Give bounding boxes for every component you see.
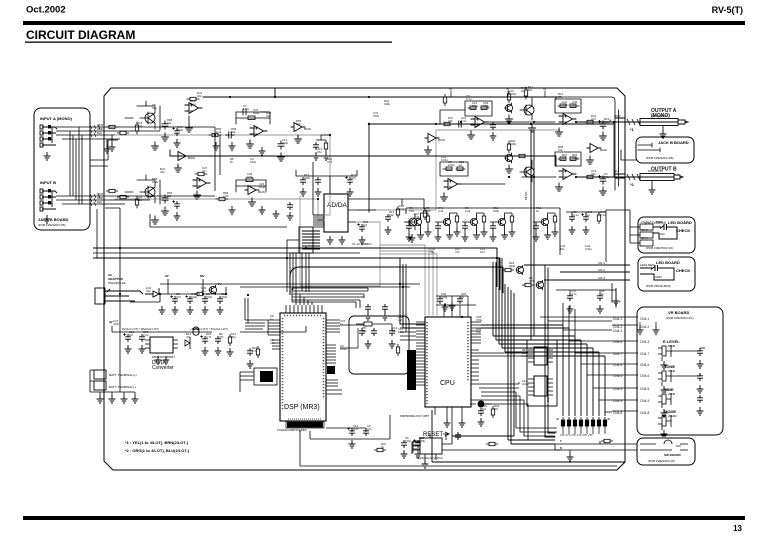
signal line to output A <box>369 124 614 212</box>
svg-text:10u: 10u <box>137 198 142 202</box>
svg-text:0.01u: 0.01u <box>562 103 569 107</box>
svg-text:100u: 100u <box>243 107 250 111</box>
svg-text:33p: 33p <box>146 289 151 293</box>
corner wire 1 <box>556 97 615 190</box>
gnd <box>597 305 604 313</box>
junction 18 <box>499 266 501 268</box>
junction 27 <box>461 316 463 318</box>
gnd pot2 <box>661 386 668 394</box>
right circuit resistor <box>396 206 399 218</box>
wire bundle from jack A <box>56 127 215 392</box>
DSP right pins upper <box>326 320 340 332</box>
res on jack line A1 <box>106 125 118 128</box>
out ecap <box>200 335 207 344</box>
ground Q11 <box>506 165 513 173</box>
ground B2 <box>175 164 182 172</box>
dark comp below cpu <box>470 401 491 408</box>
FET mute A <box>520 98 534 120</box>
gnd net mid <box>323 152 330 160</box>
cluster Q22 <box>462 213 488 241</box>
svg-text:470: 470 <box>591 117 596 121</box>
junction 4 <box>329 134 331 136</box>
ground A9 <box>556 183 563 191</box>
ecap left stage B <box>172 200 179 209</box>
op-amp A3 <box>193 178 210 189</box>
svg-text:22k: 22k <box>448 119 453 123</box>
svg-text:22k: 22k <box>296 122 301 126</box>
cluster Q21 <box>435 213 461 241</box>
reset IC pins <box>425 454 436 460</box>
SW module IC2 pins <box>528 379 553 395</box>
filter cap3 <box>202 296 208 304</box>
junction 14 <box>508 176 510 178</box>
junction 9 <box>508 121 510 123</box>
svg-text:47u: 47u <box>201 289 206 293</box>
svg-text:470p: 470p <box>177 128 184 132</box>
svg-text:47k: 47k <box>558 95 563 99</box>
svg-text:0.1u: 0.1u <box>571 292 577 296</box>
filter cap4 <box>217 296 223 304</box>
led1 symbol <box>653 224 677 239</box>
ground Q10 <box>506 115 513 123</box>
svg-text:BIAS: BIAS <box>304 127 311 131</box>
DSP left wire bundle <box>245 298 268 329</box>
svg-text:13: 13 <box>733 524 742 533</box>
svg-text:470p: 470p <box>510 92 517 96</box>
svg-text:SW: SW <box>676 444 681 448</box>
res on jack line B1 <box>106 189 118 192</box>
below DSP cap <box>347 427 354 436</box>
ground B1 <box>295 135 302 143</box>
svg-text:CN4-8: CN4-8 <box>640 411 649 415</box>
cluster Q20 <box>406 213 432 241</box>
gnd <box>139 345 146 353</box>
resistor array <box>561 417 564 429</box>
gnd fb <box>227 348 234 356</box>
svg-text:INPUT B: INPUT B <box>40 180 56 185</box>
svg-text:2.2u: 2.2u <box>143 333 149 337</box>
led board 2 internals <box>640 265 674 280</box>
MODE pot <box>658 415 671 430</box>
svg-text:470p: 470p <box>221 295 228 299</box>
top CN wires gnd <box>640 322 656 326</box>
led board1 feed wires <box>606 210 640 243</box>
wire top AD/DA <box>296 170 357 194</box>
junction 3 <box>274 96 276 98</box>
svg-text:BLK: BLK <box>97 200 102 204</box>
junction 17 <box>496 257 498 259</box>
top wires <box>436 296 476 317</box>
buffer B2 BIAS <box>175 152 189 161</box>
junction 5 <box>317 198 319 200</box>
gnd pot3 <box>661 409 668 417</box>
DSP bottom dots row <box>288 418 322 420</box>
resistor array 7 <box>597 417 600 429</box>
pot2 cap <box>697 373 703 381</box>
sw board wires <box>555 441 637 453</box>
junction dot out A <box>368 123 370 125</box>
ground input stage B <box>152 216 159 224</box>
cap below AD/DA <box>357 223 364 232</box>
gnd IC <box>155 356 162 364</box>
batt terminal minus box <box>94 381 106 390</box>
cap right above AD/DA <box>345 176 352 185</box>
svg-text:22k: 22k <box>362 329 367 333</box>
wires AD/DA right <box>356 199 424 210</box>
junction 29 <box>402 286 404 288</box>
svg-text:CN-1: CN-1 <box>598 261 605 265</box>
wire to output B <box>576 174 640 178</box>
svg-text:2.2k: 2.2k <box>252 349 258 353</box>
junction 8 <box>460 121 462 123</box>
svg-text:100k: 100k <box>510 142 517 146</box>
filter ecap1 <box>170 295 177 304</box>
svg-text:47k: 47k <box>476 330 481 334</box>
svg-text:M5291FP/M5967: M5291FP/M5967 <box>152 355 175 359</box>
JFET input stage B <box>125 175 160 204</box>
resistor input B <box>135 196 138 208</box>
svg-text:470p: 470p <box>373 114 380 118</box>
svg-text:RED: RED <box>648 263 655 267</box>
right circuit cap <box>385 214 391 222</box>
svg-text:Oct.2002: Oct.2002 <box>26 5 66 16</box>
gnd <box>187 306 194 314</box>
horizontal bus 2 <box>93 258 500 290</box>
res pair top out <box>443 94 446 106</box>
input jack A <box>40 125 57 147</box>
svg-text:CN4-1: CN4-1 <box>613 317 622 321</box>
svg-text:9V: 9V <box>543 87 547 91</box>
CPU pin name texture left <box>426 322 428 404</box>
signal path B (gray) <box>115 199 324 220</box>
SW module IC1 pins <box>528 350 553 362</box>
led area wire <box>612 283 616 303</box>
ground jack A <box>44 152 51 160</box>
ground <box>300 188 307 196</box>
svg-text:1M: 1M <box>528 88 533 92</box>
resistor array dark bodies <box>562 420 607 426</box>
DSP pin texture top <box>284 315 322 317</box>
svg-text:CN4-3: CN4-3 <box>640 340 649 344</box>
RESET wires <box>412 407 562 454</box>
gnd <box>365 312 372 320</box>
cap left <box>247 348 253 356</box>
svg-text:0.01u: 0.01u <box>340 347 347 351</box>
JACK B BOARD box <box>636 137 694 163</box>
svg-text:BIAS: BIAS <box>600 148 607 152</box>
gnd2 <box>415 450 422 458</box>
svg-text:22k: 22k <box>522 351 527 355</box>
res on jack line B2 <box>117 195 129 198</box>
svg-text:47u: 47u <box>202 169 207 173</box>
signal path A (gray) <box>115 135 330 215</box>
feedback box op-amp A7 <box>555 99 581 113</box>
ground A8 <box>441 193 448 201</box>
CN stubs link wires <box>612 317 638 411</box>
gnd led area <box>613 297 620 305</box>
svg-text:22k: 22k <box>389 213 394 217</box>
svg-text:100p: 100p <box>191 295 198 299</box>
junction 21 <box>119 247 121 249</box>
gnd top out <box>490 132 497 140</box>
pot1 cap <box>697 348 703 356</box>
caps cluster right below dsp <box>401 440 407 448</box>
ground mid A <box>278 153 285 161</box>
IC pins <box>145 340 178 348</box>
horizontal links to CN column <box>563 330 612 412</box>
SW BOARD box <box>637 438 695 465</box>
svg-text:VR BOARD: VR BOARD <box>668 310 689 315</box>
rail wires <box>112 326 306 332</box>
wires to LED board 2 <box>524 265 630 280</box>
below DSP wires <box>310 415 390 439</box>
svg-text:100p: 100p <box>483 104 490 108</box>
junction 30 <box>247 294 249 296</box>
main board outline <box>104 88 625 470</box>
out ecap B <box>598 175 605 184</box>
cap out row <box>287 202 293 210</box>
resistor after A1 <box>209 133 221 136</box>
dark pair to cpu <box>400 258 425 328</box>
title underline <box>25 42 392 43</box>
cap after A1 <box>226 132 234 138</box>
svg-text:47k: 47k <box>558 148 563 152</box>
svg-text:GRN: GRN <box>655 275 662 279</box>
gnd row b <box>229 142 236 150</box>
junction 25 <box>225 293 227 295</box>
svg-text:0.1u: 0.1u <box>466 97 472 101</box>
ecap left stage <box>172 127 179 136</box>
connector comb left of AD/DA <box>299 227 320 253</box>
extra vert rails left <box>215 127 220 191</box>
crystal box <box>349 316 409 374</box>
gnd <box>401 450 408 458</box>
svg-text:100k: 100k <box>304 176 311 180</box>
resistor array 2 <box>567 417 570 429</box>
svg-text:(PCB 23941U900): (PCB 23941U900) <box>646 284 671 288</box>
pins AD/DA right <box>348 199 356 222</box>
cap pair mid A <box>278 141 284 149</box>
gnd <box>583 226 590 234</box>
ground out A <box>600 132 607 140</box>
wire bus AD/DA left down <box>287 240 309 292</box>
svg-text:2.2k: 2.2k <box>216 130 222 134</box>
crystal gnd2 <box>389 340 396 348</box>
junction 22 <box>119 293 121 295</box>
ground input stage A <box>152 142 159 150</box>
DSP pin name texture left <box>282 318 284 410</box>
CN top row wires left <box>540 317 612 321</box>
mute control lines <box>527 130 555 437</box>
ground <box>385 226 392 234</box>
gnd left stage B <box>174 212 181 220</box>
op-amp A6 <box>471 117 488 128</box>
svg-text:BLK: BLK <box>97 131 102 135</box>
svg-text:22k: 22k <box>197 94 202 98</box>
gnd <box>349 440 356 448</box>
cap net mid <box>313 142 319 150</box>
svg-text:B: B <box>560 446 562 450</box>
SW module IC1 <box>534 347 547 365</box>
svg-text:RCA(3M W): RCA(3M W) <box>652 114 667 118</box>
svg-text:BIAS: BIAS <box>258 190 265 194</box>
svg-text:100p: 100p <box>206 295 213 299</box>
gnd <box>172 306 179 314</box>
ground A6 <box>468 131 475 139</box>
svg-text:CN4-3: CN4-3 <box>613 329 622 333</box>
svg-text:1u: 1u <box>459 163 463 167</box>
op-amp A7 output A <box>559 114 576 125</box>
svg-text:470p: 470p <box>399 207 406 211</box>
wire to output A <box>576 118 640 122</box>
junction 23 <box>159 293 161 295</box>
vertical bundle adda-dsp <box>380 245 437 315</box>
gnd pot4 <box>661 430 668 438</box>
CPU left bus dark block <box>407 350 416 390</box>
DSP right pins mid <box>326 345 336 363</box>
SW module box <box>527 340 557 406</box>
header rule <box>23 21 745 25</box>
svg-text:470p: 470p <box>441 295 448 299</box>
row rail top <box>406 208 560 255</box>
ground <box>359 236 366 244</box>
gnd row g <box>273 210 280 218</box>
gnd cpu2 <box>459 419 466 427</box>
res net mid <box>324 140 327 152</box>
buffer B3 <box>245 186 259 195</box>
cap wires <box>556 290 616 308</box>
LED BOARD box 2 <box>638 257 695 291</box>
ground cap A <box>162 133 169 141</box>
svg-text:470p: 470p <box>113 322 120 326</box>
CPU left bus wires <box>400 264 416 340</box>
probe T <box>443 432 449 440</box>
svg-text:470: 470 <box>409 209 414 213</box>
cap2 <box>457 296 463 304</box>
gnd <box>217 306 224 314</box>
transistor right of AD/DA <box>404 214 417 230</box>
gnd row c <box>259 147 266 155</box>
svg-text:2.2k: 2.2k <box>604 120 610 124</box>
svg-text:1M: 1M <box>398 318 403 322</box>
input cap2 <box>139 334 145 342</box>
ground <box>409 234 416 242</box>
pins AD/DA left <box>313 215 324 227</box>
svg-text:330k: 330k <box>419 439 426 443</box>
through wire A8 out <box>440 110 556 184</box>
svg-text:0.01u: 0.01u <box>522 382 529 386</box>
cluster Q24 <box>533 213 559 241</box>
op-amp A8 <box>444 179 461 190</box>
svg-text:CN-2: CN-2 <box>598 268 605 272</box>
svg-text:0.1u: 0.1u <box>604 175 610 179</box>
CN column labels right <box>640 317 649 415</box>
svg-text:4.7k: 4.7k <box>529 279 535 283</box>
svg-text:47k: 47k <box>186 335 191 339</box>
res mid out <box>516 154 528 157</box>
svg-text:JACK A BOARD: JACK A BOARD <box>38 217 68 222</box>
svg-text:47k: 47k <box>455 250 460 254</box>
ground FET A <box>529 124 536 132</box>
svg-text:*2 : ORG(1 to 4/LOT), BLU(2/LO: *2 : ORG(1 to 4/LOT), BLU(2/LOT-) <box>125 448 190 453</box>
res far right <box>597 212 600 224</box>
svg-text:4P: 4P <box>556 417 560 421</box>
signal line to output B <box>170 150 556 166</box>
wire net mid <box>316 135 330 140</box>
rail far right <box>566 212 606 262</box>
DC/DC IC <box>150 337 173 353</box>
feedback box op-amp A6 <box>465 101 492 116</box>
svg-text:10k: 10k <box>266 114 271 118</box>
svg-text:9V: 9V <box>165 274 169 278</box>
svg-text:LED BOARD: LED BOARD <box>656 260 680 265</box>
resistor Q30 <box>502 268 514 271</box>
left comb resistors <box>256 346 259 358</box>
svg-text:1M: 1M <box>494 407 499 411</box>
cap left above AD/DA <box>300 177 306 185</box>
resistor array 3 <box>573 417 576 429</box>
svg-text:470: 470 <box>351 176 356 180</box>
E.LEVEL pot <box>658 345 671 361</box>
svg-text:4.7k: 4.7k <box>206 335 212 339</box>
svg-text:9V(1st LOT) / MV(2nd LOT): 9V(1st LOT) / MV(2nd LOT) <box>122 327 159 331</box>
mute transistor Q10 <box>505 103 513 113</box>
wires CPU to SW <box>479 353 528 388</box>
svg-text:DSP (MR3): DSP (MR3) <box>284 404 320 411</box>
DSP bottom pin comb <box>286 422 324 429</box>
svg-text:(PCB F2921004 2/1): (PCB F2921004 2/1) <box>666 316 694 320</box>
svg-text:BATT. TERMINAL(+): BATT. TERMINAL(+) <box>109 373 137 377</box>
LED BOARD (RED/GRN) box <box>638 217 695 253</box>
horizontal bus 3 <box>160 283 420 285</box>
ground A2 <box>247 140 254 148</box>
svg-text:RED: RED <box>656 220 663 224</box>
svg-text:2.2k: 2.2k <box>414 215 420 219</box>
svg-text:1u: 1u <box>461 295 465 299</box>
svg-text:1u: 1u <box>587 213 591 217</box>
E-S connector block <box>240 368 277 392</box>
svg-text:BIAS: BIAS <box>438 138 445 142</box>
ground B3 <box>249 198 256 206</box>
CN column labels left <box>613 317 622 415</box>
cluster Q23 <box>490 213 516 241</box>
svg-text:100p: 100p <box>259 185 266 189</box>
wire mid low <box>150 162 324 227</box>
diode D1 <box>145 288 159 297</box>
res on jack line A2 <box>117 131 129 134</box>
junction 7 <box>435 123 437 125</box>
BIAS triangle A <box>425 134 439 143</box>
svg-text:100k: 100k <box>152 180 159 184</box>
svg-text:9V: 9V <box>449 87 453 91</box>
reset box pins <box>413 441 420 453</box>
svg-text:RESET: RESET <box>423 432 443 438</box>
return path gray A <box>356 130 560 210</box>
svg-text:100u: 100u <box>472 104 479 108</box>
svg-text:SW BOARD: SW BOARD <box>664 453 681 457</box>
svg-text:CN4-5: CN4-5 <box>640 387 649 391</box>
DSP left pins <box>268 320 280 349</box>
transistor Q30 <box>516 265 524 275</box>
crystal cap 1 <box>359 328 365 336</box>
gnd b1 <box>97 395 104 403</box>
svg-text:CN-3: CN-3 <box>598 276 605 280</box>
svg-text:CN-1: CN-1 <box>641 220 648 224</box>
junction 24 <box>202 293 204 295</box>
svg-text:100u: 100u <box>253 111 260 115</box>
mute transistor Q11 <box>505 153 513 163</box>
ground A1 <box>186 124 193 132</box>
